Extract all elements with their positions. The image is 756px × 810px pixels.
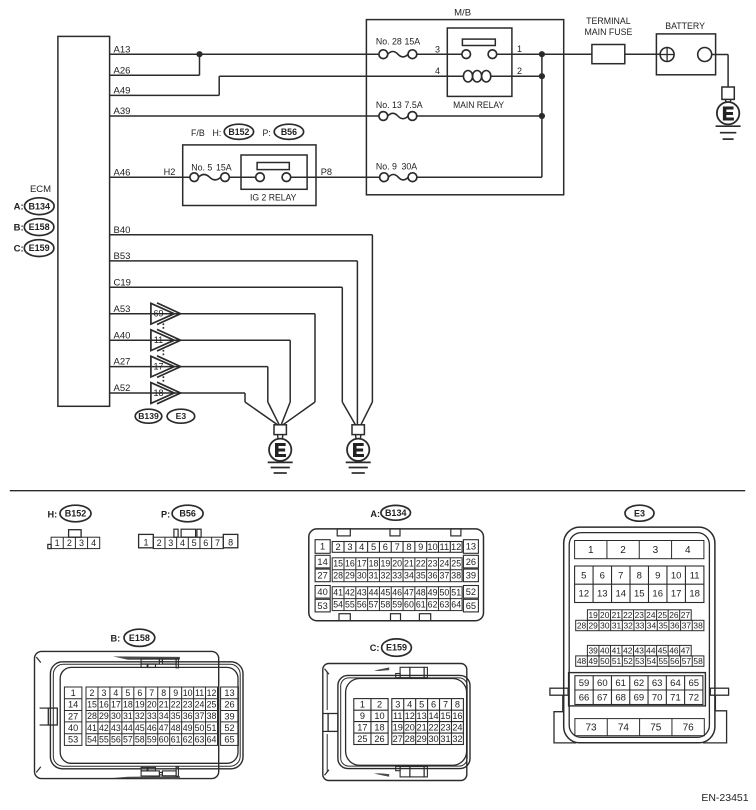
svg-text:37: 37 [195,711,205,721]
svg-text:28: 28 [405,734,415,744]
ground E right [346,425,371,473]
svg-text:3: 3 [168,538,173,548]
svg-text:45: 45 [380,588,390,598]
svg-text:4: 4 [685,545,691,556]
svg-text:17: 17 [153,362,163,372]
fuse No. 13 7.5A [376,100,542,121]
fuse No. 28 15A [376,36,462,58]
svg-text:62: 62 [183,735,193,745]
svg-text:39: 39 [589,646,599,656]
wire A26 [110,54,200,76]
wire A53 [110,304,315,425]
svg-text:19: 19 [380,559,390,569]
svg-text:41: 41 [333,588,343,598]
svg-text:70: 70 [652,692,663,703]
svg-text:50: 50 [439,588,449,598]
svg-text:55: 55 [658,656,668,666]
svg-text:8: 8 [161,688,166,698]
svg-text:46: 46 [147,723,157,733]
svg-text:59: 59 [392,600,402,610]
svg-text:P:: P: [263,128,271,138]
svg-text:No. 5: No. 5 [191,163,212,173]
svg-text:47: 47 [681,646,691,656]
svg-text:24: 24 [195,700,205,710]
svg-text:12: 12 [579,589,590,600]
svg-text:25: 25 [451,559,461,569]
svg-text:35: 35 [658,620,668,630]
svg-text:10: 10 [374,711,384,721]
svg-text:39: 39 [466,571,476,581]
svg-text:30A: 30A [402,161,418,171]
svg-text:6: 6 [137,688,142,698]
svg-text:55: 55 [345,600,355,610]
svg-text:59: 59 [147,735,157,745]
svg-text:25: 25 [207,700,217,710]
svg-text:36: 36 [428,571,438,581]
svg-text:3: 3 [653,545,659,556]
ECM box [58,36,110,406]
svg-text:B152: B152 [228,127,249,137]
connector P: B56 pinout [139,505,238,548]
svg-text:A:: A: [14,201,24,212]
svg-text:B134: B134 [385,508,407,518]
svg-text:56: 56 [670,656,680,666]
svg-text:16: 16 [452,711,462,721]
svg-text:7: 7 [215,538,220,548]
svg-text:MAIN RELAY: MAIN RELAY [453,100,504,110]
wire A52 [110,383,278,425]
svg-text:34: 34 [647,620,657,630]
svg-text:7: 7 [395,542,400,552]
svg-text:E: E [274,440,286,460]
ground E left [268,425,293,473]
svg-text:21: 21 [417,722,427,732]
connector ref B139 [135,409,162,423]
svg-text:34: 34 [404,571,414,581]
svg-text:8: 8 [455,700,460,710]
svg-text:27: 27 [317,571,327,581]
svg-text:60: 60 [597,678,608,689]
svg-text:28: 28 [577,620,587,630]
svg-text:31: 31 [369,571,379,581]
svg-text:14: 14 [615,589,626,600]
svg-text:19: 19 [135,700,145,710]
svg-text:26: 26 [374,734,384,744]
svg-text:51: 51 [207,723,217,733]
wire A40 [110,330,291,425]
svg-text:47: 47 [159,723,169,733]
connector E3 pinout [550,505,729,743]
svg-text:9: 9 [655,570,660,581]
svg-text:25: 25 [357,734,367,744]
svg-text:18: 18 [123,700,133,710]
svg-text:H:: H: [213,128,222,138]
wire C19 [110,277,356,424]
svg-text:17: 17 [671,589,682,600]
fuse No. 9 30A [291,161,542,181]
svg-text:13: 13 [417,711,427,721]
svg-text:14: 14 [317,557,327,567]
svg-text:1: 1 [320,542,325,552]
svg-text:24: 24 [452,722,462,732]
svg-text:74: 74 [618,723,630,734]
svg-text:C:: C: [370,643,380,653]
svg-text:26: 26 [669,610,679,620]
svg-text:18: 18 [153,388,163,398]
svg-text:39: 39 [224,711,234,721]
main relay [435,28,522,110]
svg-text:18: 18 [689,589,700,600]
svg-text:45: 45 [135,723,145,733]
svg-text:33: 33 [635,620,645,630]
svg-text:26: 26 [466,557,476,567]
svg-text:4: 4 [407,700,412,710]
svg-text:E3: E3 [634,508,645,518]
svg-text:60: 60 [159,735,169,745]
svg-text:12: 12 [451,542,461,552]
svg-text:27: 27 [393,734,403,744]
junction dot bus top [539,51,545,57]
connector B: E158 pinout [35,629,244,779]
svg-text:29: 29 [589,620,599,630]
svg-text:63: 63 [439,600,449,610]
ECM connector ref A: B134 [14,198,55,215]
svg-text:48: 48 [577,656,587,666]
svg-text:5: 5 [581,570,586,581]
svg-text:12: 12 [207,688,217,698]
svg-text:55: 55 [99,735,109,745]
svg-text:53: 53 [68,735,78,745]
svg-text:69: 69 [634,692,645,703]
svg-text:59: 59 [579,678,590,689]
svg-text:No. 9: No. 9 [376,161,397,171]
svg-text:24: 24 [646,610,656,620]
svg-text:67: 67 [597,692,608,703]
svg-text:43: 43 [357,588,367,598]
connector C: E159 pinout [323,639,470,781]
svg-text:49: 49 [428,588,438,598]
svg-text:15: 15 [333,559,343,569]
svg-text:37: 37 [439,571,449,581]
svg-text:27: 27 [681,610,691,620]
svg-text:B:: B: [111,634,121,644]
svg-text:28: 28 [87,711,97,721]
svg-text:27: 27 [68,711,78,721]
wire A13 [110,44,379,55]
svg-text:32: 32 [135,711,145,721]
svg-text:23: 23 [440,722,450,732]
svg-text:65: 65 [466,601,476,611]
svg-text:64: 64 [207,735,217,745]
svg-text:36: 36 [670,620,680,630]
svg-text:2: 2 [67,538,72,548]
svg-text:73: 73 [586,723,598,734]
svg-text:ECM: ECM [30,184,51,195]
svg-text:8: 8 [637,570,642,581]
svg-text:43: 43 [111,723,121,733]
svg-text:20: 20 [392,559,402,569]
svg-text:26: 26 [224,700,234,710]
svg-text:56: 56 [111,735,121,745]
svg-text:9: 9 [418,542,423,552]
svg-text:2: 2 [620,545,626,556]
svg-text:E159: E159 [386,643,407,653]
shield symbol 18 [151,382,181,404]
svg-text:33: 33 [392,571,402,581]
svg-text:21: 21 [159,700,169,710]
svg-text:22: 22 [623,610,633,620]
svg-text:4: 4 [113,688,118,698]
svg-text:5: 5 [371,542,376,552]
svg-text:32: 32 [380,571,390,581]
svg-text:11: 11 [154,335,163,345]
svg-text:6: 6 [600,570,605,581]
svg-text:40: 40 [68,723,78,733]
svg-text:43: 43 [635,646,645,656]
svg-text:7: 7 [149,688,154,698]
shield dashed link [162,323,164,383]
svg-text:35: 35 [416,571,426,581]
svg-text:62: 62 [428,600,438,610]
svg-text:38: 38 [693,620,703,630]
svg-text:1: 1 [517,44,522,54]
wire main relay pin 1 to terminal main fuse [497,53,592,55]
svg-text:28: 28 [333,571,343,581]
svg-text:18: 18 [374,722,384,732]
svg-text:E159: E159 [29,243,50,253]
svg-text:13: 13 [466,542,476,552]
svg-text:12: 12 [405,711,415,721]
svg-text:34: 34 [159,711,169,721]
svg-text:15A: 15A [216,163,232,173]
ECM connector ref B: E158 [14,219,54,236]
svg-text:1: 1 [360,700,365,710]
ECM connector ref C: E159 [14,240,54,257]
svg-text:14: 14 [68,700,78,710]
svg-text:21: 21 [404,559,414,569]
svg-text:3: 3 [347,542,352,552]
svg-text:E3: E3 [176,411,187,421]
svg-text:25: 25 [658,610,668,620]
svg-text:31: 31 [123,711,133,721]
svg-text:18: 18 [369,559,379,569]
wire main relay pin 2 to bus [491,75,542,77]
svg-text:IG 2 RELAY: IG 2 RELAY [250,193,297,203]
svg-text:41: 41 [87,723,97,733]
svg-text:B139: B139 [138,411,159,421]
svg-text:EN-23451: EN-23451 [701,792,748,804]
svg-text:3: 3 [395,700,400,710]
svg-text:68: 68 [615,692,626,703]
svg-text:30: 30 [357,571,367,581]
svg-text:9: 9 [360,711,365,721]
svg-text:2: 2 [90,688,95,698]
svg-text:10: 10 [183,688,193,698]
svg-text:B134: B134 [29,201,51,211]
svg-text:H2: H2 [164,167,176,177]
svg-text:71: 71 [670,692,681,703]
svg-text:36: 36 [183,711,193,721]
connector H: B152 pinout [48,505,100,548]
svg-text:64: 64 [670,678,681,689]
svg-text:15: 15 [634,589,645,600]
svg-text:8: 8 [406,542,411,552]
svg-text:E158: E158 [129,633,150,643]
ECM label [30,184,51,195]
svg-text:9: 9 [173,688,178,698]
svg-text:60: 60 [404,600,414,610]
svg-text:40: 40 [317,587,327,597]
svg-text:1: 1 [588,545,594,556]
svg-text:14: 14 [428,711,438,721]
svg-text:61: 61 [416,600,426,610]
svg-text:15: 15 [440,711,450,721]
svg-text:20: 20 [600,610,610,620]
svg-text:10: 10 [671,570,682,581]
svg-text:BATTERY: BATTERY [665,21,705,31]
svg-text:1: 1 [143,537,148,547]
svg-text:19: 19 [589,610,599,620]
svg-text:13: 13 [224,688,234,698]
wire B40 [110,225,373,425]
svg-text:17: 17 [111,700,121,710]
svg-text:6: 6 [203,538,208,548]
svg-text:69: 69 [153,309,163,319]
svg-text:47: 47 [404,588,414,598]
shield symbol 11 [151,329,181,351]
svg-text:3: 3 [435,44,440,54]
svg-text:54: 54 [87,735,97,745]
svg-text:11: 11 [440,542,450,552]
svg-text:63: 63 [652,678,663,689]
svg-text:52: 52 [224,723,234,733]
svg-text:53: 53 [317,601,327,611]
wire A39 [110,106,379,117]
svg-text:30: 30 [111,711,121,721]
svg-text:42: 42 [345,588,355,598]
svg-text:58: 58 [380,600,390,610]
svg-text:7: 7 [618,570,623,581]
svg-text:16: 16 [99,700,109,710]
svg-text:37: 37 [682,620,692,630]
svg-text:52: 52 [466,587,476,597]
svg-text:51: 51 [451,588,461,598]
svg-text:P8: P8 [321,167,332,177]
bus vertical wire [541,54,543,177]
wire B53 [110,251,358,425]
svg-text:1: 1 [71,688,76,698]
svg-text:7.5A: 7.5A [405,100,423,110]
svg-text:2: 2 [336,542,341,552]
svg-text:22: 22 [416,559,426,569]
svg-text:38: 38 [207,711,217,721]
svg-text:54: 54 [647,656,657,666]
svg-text:58: 58 [693,656,703,666]
junction dot bus fuse13 [539,113,545,119]
svg-text:30: 30 [428,734,438,744]
svg-text:13: 13 [597,589,608,600]
svg-text:11: 11 [195,688,204,698]
svg-text:53: 53 [635,656,645,666]
svg-text:29: 29 [99,711,109,721]
svg-text:50: 50 [600,656,610,666]
svg-text:51: 51 [612,656,622,666]
svg-text:44: 44 [369,588,379,598]
svg-text:42: 42 [99,723,109,733]
svg-text:2: 2 [517,66,522,76]
svg-text:E: E [722,104,734,124]
svg-text:66: 66 [579,692,590,703]
svg-text:22: 22 [171,700,181,710]
svg-text:A:: A: [370,509,380,519]
svg-text:17: 17 [357,559,367,569]
svg-text:H:: H: [48,510,58,520]
svg-text:61: 61 [615,678,626,689]
svg-text:B152: B152 [65,509,87,519]
svg-text:65: 65 [224,735,234,745]
wire A27 [110,357,280,425]
svg-text:75: 75 [650,723,662,734]
svg-text:46: 46 [669,646,679,656]
shield symbol 69 [151,303,181,325]
svg-text:30: 30 [600,620,610,630]
figure number EN-23451 [701,792,748,804]
svg-text:24: 24 [439,559,449,569]
svg-text:6: 6 [383,542,388,552]
wire A49 [110,76,464,96]
svg-text:48: 48 [171,723,181,733]
svg-text:56: 56 [357,600,367,610]
svg-text:4: 4 [180,538,185,548]
svg-text:57: 57 [123,735,133,745]
svg-text:31: 31 [440,734,450,744]
svg-text:5: 5 [192,538,197,548]
svg-text:19: 19 [393,722,403,732]
svg-text:57: 57 [369,600,379,610]
svg-text:1: 1 [55,538,60,548]
svg-text:4: 4 [435,66,440,76]
svg-text:2: 2 [157,538,162,548]
svg-text:23: 23 [428,559,438,569]
svg-text:4: 4 [359,542,364,552]
svg-text:16: 16 [345,559,355,569]
svg-text:4: 4 [91,538,96,548]
svg-text:16: 16 [652,589,663,600]
svg-text:35: 35 [171,711,181,721]
svg-text:48: 48 [416,588,426,598]
ground E battery [716,87,741,139]
svg-text:20: 20 [405,722,415,732]
svg-text:31: 31 [612,620,622,630]
svg-text:29: 29 [345,571,355,581]
svg-text:32: 32 [452,734,462,744]
svg-text:44: 44 [123,723,133,733]
svg-text:20: 20 [147,700,157,710]
svg-text:B56: B56 [281,127,297,137]
svg-text:44: 44 [646,646,656,656]
svg-text:65: 65 [688,678,699,689]
svg-text:C:: C: [14,243,24,254]
svg-text:F/B: F/B [191,128,205,138]
wire A46 [110,167,190,178]
svg-text:54: 54 [333,600,343,610]
svg-text:63: 63 [195,735,205,745]
svg-text:P:: P: [161,510,170,520]
IG 2 relay [164,145,332,206]
svg-text:58: 58 [135,735,145,745]
battery [656,21,715,75]
svg-text:E: E [352,440,364,460]
